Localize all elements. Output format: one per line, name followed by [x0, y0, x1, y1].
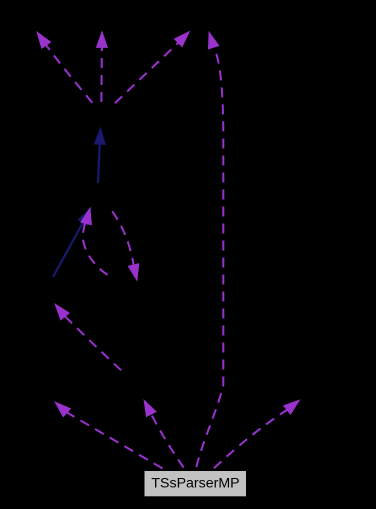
inheritance arrow (solid midnightblue) vertical: [98, 143, 100, 183]
node TSsParserMP (current node, grey filled): [144, 471, 247, 497]
usage arrow (dashed darkorchid) fan to top-right: [112, 42, 179, 106]
usage arrow (dashed darkorchid) bottom-left fan: [66, 412, 166, 471]
usage arrow (dashed darkorchid) fan to top-middle: [100, 47, 103, 107]
svg-text:TSsParserMP: TSsParserMP: [151, 475, 239, 491]
inheritance arrow (solid midnightblue) diagonal: [53, 221, 84, 277]
usage arrow (dashed darkorchid) fan to top-left: [46, 44, 95, 106]
usage arrow (dashed darkorchid) loop right side, down: [110, 208, 134, 266]
usage arrow (dashed darkorchid) bottom-right fan: [211, 409, 288, 471]
usage arrow (dashed darkorchid) from TSsParserMP to mid node: [151, 413, 186, 471]
usage arrow (dashed darkorchid) diagonal mid-left: [64, 316, 124, 373]
usage arrow (dashed darkorchid) loop left side, up: [83, 222, 111, 277]
usage arrow (dashed darkorchid) long right edge from TSsParserMP to top: [196, 46, 224, 471]
